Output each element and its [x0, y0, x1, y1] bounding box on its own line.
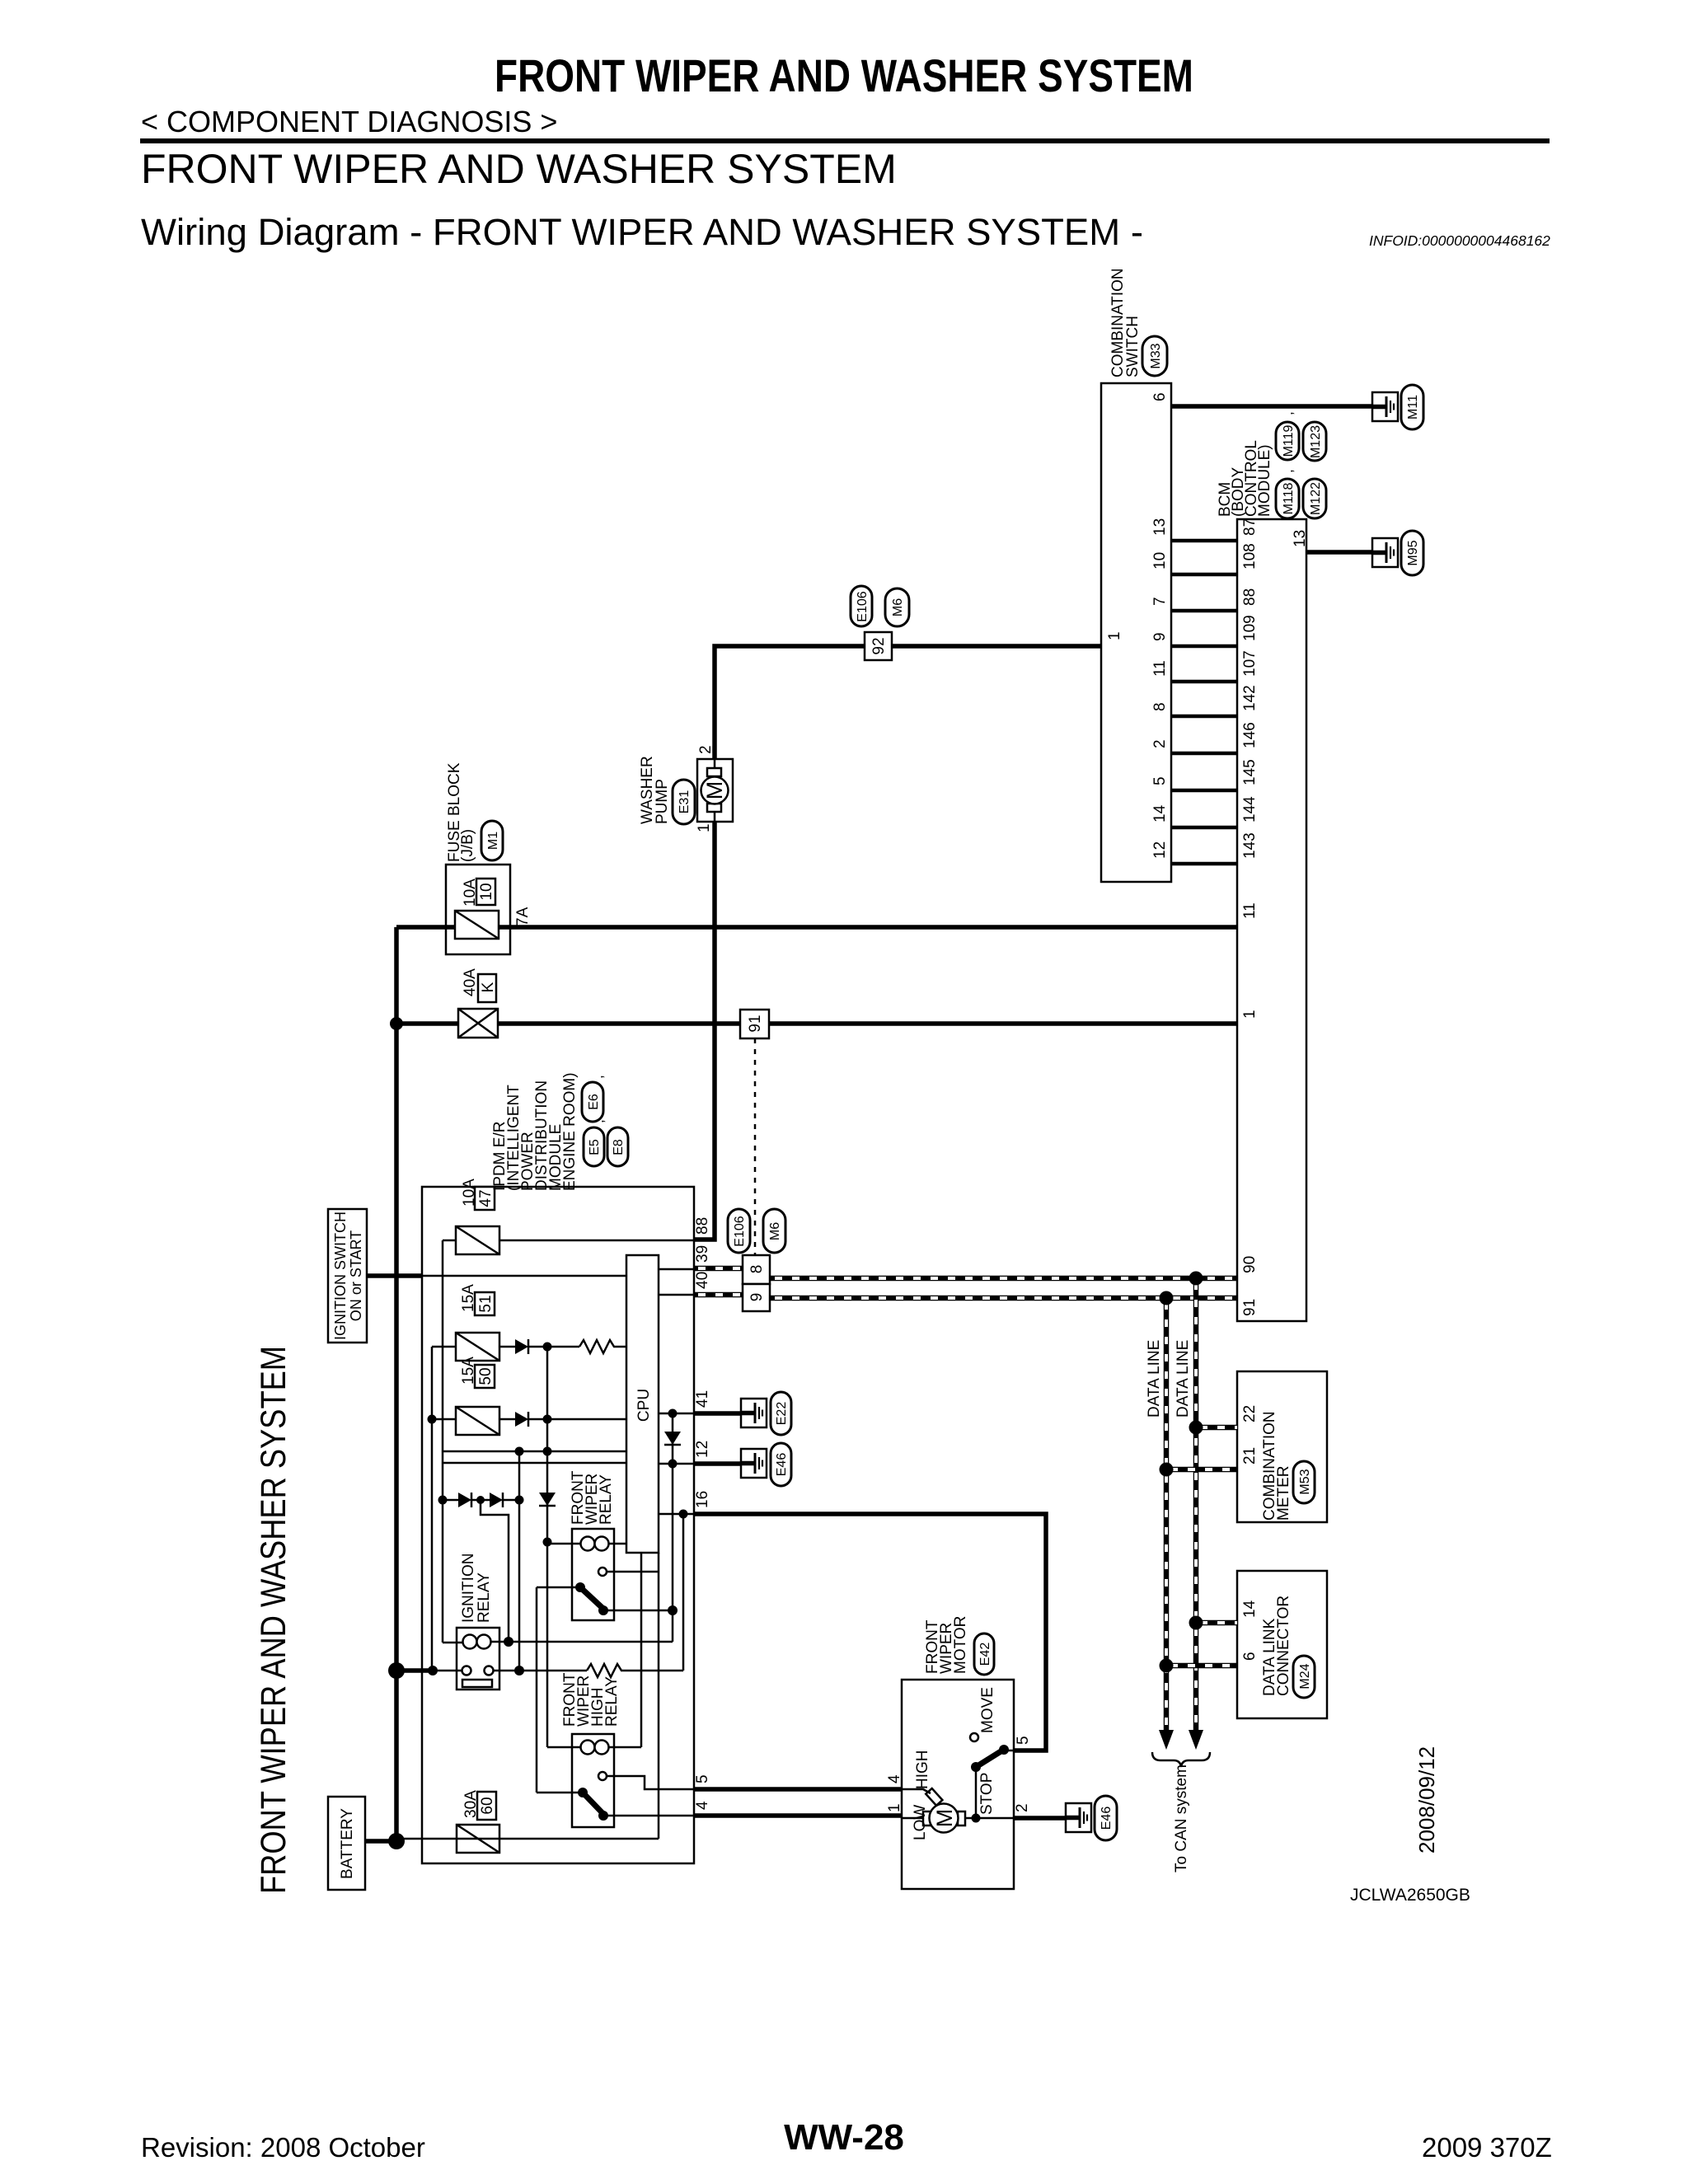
diode D3 ignition relay freewheel [458, 1493, 471, 1507]
connector label M11 oval [1401, 385, 1423, 429]
svg-text:,: , [1280, 469, 1296, 473]
wire switch row 14-144 [1171, 826, 1237, 830]
wire riser 816 to pin 12 node [672, 1610, 674, 1642]
wire ignition relay coil left lead [443, 1642, 463, 1644]
wire fuse 47 rail vertical [442, 1240, 444, 1643]
svg-text:M24: M24 [1298, 1663, 1312, 1689]
wire diode D4 tap down to ignition relay coil node [481, 1500, 509, 1642]
resistor R2 [587, 1664, 683, 1677]
svg-text:RELAY: RELAY [476, 1572, 493, 1623]
svg-text:M: M [932, 1809, 957, 1828]
washer pump box [697, 759, 733, 822]
wire switch row 2-146 [1171, 752, 1237, 756]
svg-text:E106: E106 [856, 591, 870, 621]
front wiper high relay lever [583, 1793, 603, 1814]
svg-text:88: 88 [1241, 588, 1259, 606]
svg-text:60: 60 [479, 1797, 496, 1814]
node DLC 14 tap [1189, 1616, 1203, 1630]
node park switch pivot [971, 1762, 981, 1772]
wire front wiper relay coil right lead to CPU [607, 1543, 626, 1545]
wire vertical 630 supply [518, 1451, 521, 1671]
front wiper motor terminals [923, 1811, 931, 1825]
front wiper motor M circle [930, 1804, 959, 1833]
svg-text:14: 14 [1241, 1600, 1259, 1618]
svg-text:12: 12 [1151, 841, 1169, 859]
node relay output node [668, 1605, 678, 1615]
node battery to 40A junction [390, 1017, 403, 1030]
node pin 16 node [679, 1510, 688, 1519]
svg-text:1: 1 [1241, 1010, 1259, 1019]
svg-text:13: 13 [1151, 518, 1169, 536]
connector label E42 [974, 1633, 994, 1675]
node fuse 50 feed [428, 1415, 437, 1424]
node battery junction B [388, 1833, 405, 1849]
dotted connector link 91 to 8 [754, 1038, 757, 1255]
fuse block (J/B) M1 box [446, 865, 510, 954]
svg-text:(J/B): (J/B) [459, 829, 476, 862]
svg-text:RELAY: RELAY [603, 1676, 621, 1727]
IPDM E/R box [422, 1187, 694, 1863]
svg-text:K: K [480, 982, 497, 992]
wire switch row 12-143 [1171, 862, 1237, 866]
svg-text:143: 143 [1241, 832, 1259, 859]
connector label M118 [1276, 479, 1299, 518]
svg-text:2: 2 [1151, 739, 1169, 748]
wire contact rail left segment [433, 1670, 462, 1672]
connector label M6 a [885, 588, 909, 626]
connector label E8 [607, 1127, 628, 1166]
svg-text:M6: M6 [768, 1222, 782, 1240]
motor park switch MOVE contact [970, 1733, 978, 1741]
front wiper high relay box [572, 1734, 614, 1827]
svg-text:,: , [591, 1119, 607, 1123]
svg-text:2: 2 [697, 745, 715, 754]
wire CAN IPDM 39 to connector 8 [694, 1266, 743, 1272]
fuse id box [K] [478, 974, 496, 1002]
svg-text:91: 91 [1241, 1299, 1259, 1316]
svg-text:E106: E106 [733, 1216, 747, 1246]
wire washer pump pin1 down to IPDM pin 88 [694, 822, 715, 1240]
svg-text:ON or START: ON or START [348, 1230, 364, 1321]
ground E46 motor [1066, 1803, 1091, 1832]
svg-text:142: 142 [1241, 685, 1259, 711]
node front wiper high relay output [598, 1811, 608, 1821]
front wiper relay box [572, 1529, 614, 1620]
svg-text:IGNITION SWITCH: IGNITION SWITCH [332, 1212, 349, 1340]
combination meter box M53 [1237, 1371, 1327, 1522]
diode D4 ignition relay freewheel [490, 1493, 503, 1507]
arrow CAN continuation 2 [1189, 1730, 1203, 1750]
svg-text:,: , [1280, 411, 1296, 415]
svg-text:10A: 10A [461, 1179, 478, 1207]
svg-text:16: 16 [694, 1491, 711, 1508]
svg-text:CONNECTOR: CONNECTOR [1275, 1596, 1292, 1696]
wire front wiper relay common lead [537, 1586, 580, 1589]
node pin 12 node [668, 1460, 678, 1469]
node pin 41 node [668, 1409, 678, 1418]
svg-text:M53: M53 [1298, 1469, 1312, 1494]
wire ignition relay coil right lead to CPU riser [490, 1641, 673, 1643]
diode D5 CPU output clamp [664, 1432, 681, 1445]
node diode row anode [438, 1496, 448, 1505]
svg-text:1: 1 [696, 823, 713, 832]
node front wiper high relay pivot [578, 1788, 588, 1797]
svg-text:MODULE): MODULE) [1256, 444, 1273, 517]
svg-text:M: M [702, 781, 727, 800]
connector 91 E106/M6 [740, 1010, 769, 1038]
wire CAN branch to meter 22 [1196, 1425, 1237, 1431]
wires combination switch to BCM rows [1171, 541, 1237, 864]
svg-text:91: 91 [747, 1015, 764, 1032]
svg-text:39: 39 [694, 1245, 711, 1263]
wire CAN connector 8 to BCM 90 [771, 1276, 1237, 1282]
BCM box [1237, 519, 1306, 1321]
svg-text:METER: METER [1275, 1466, 1292, 1521]
node meter 22 tap [1189, 1421, 1203, 1435]
wire motor pin1 lead [902, 1817, 923, 1820]
svg-text:5: 5 [1015, 1736, 1032, 1745]
wire front wiper relay coil left lead [547, 1543, 583, 1545]
svg-text:21: 21 [1241, 1447, 1259, 1465]
wire high relay coil left lead [547, 1746, 583, 1749]
svg-text:14: 14 [1151, 804, 1169, 823]
wire switch row 5-145 [1171, 789, 1237, 793]
node rail 1761 junction A [515, 1447, 524, 1456]
node motor stop junction [972, 1814, 981, 1823]
ground E22 [741, 1399, 767, 1427]
footer center page number [0, 2117, 1688, 2158]
node front relay coil node [543, 1538, 552, 1547]
svg-text:MOVE: MOVE [979, 1687, 996, 1733]
connector label E31 [673, 780, 695, 824]
wire ignition relay contact rail with resistor R2 [493, 1670, 587, 1672]
svg-text:M95: M95 [1406, 540, 1420, 565]
node between D3 D4 [476, 1496, 485, 1504]
svg-text:RELAY: RELAY [598, 1474, 615, 1525]
svg-text:146: 146 [1241, 722, 1259, 748]
node front wiper relay output [598, 1605, 608, 1615]
svg-text:40: 40 [694, 1272, 711, 1289]
wire IPDM pin 16 to front wiper motor pin 5 [694, 1514, 1046, 1750]
wire battery vertical trunk [394, 927, 399, 1841]
washer pump motor M terminals [707, 768, 721, 776]
wire switch row 13-87 [1171, 539, 1237, 543]
wire BCM pin 13 to ground M95 [1306, 550, 1386, 555]
fuse 15A [50] [456, 1407, 499, 1435]
svg-text:CPU: CPU [635, 1389, 653, 1422]
svg-text:145: 145 [1241, 759, 1259, 785]
svg-text:11: 11 [1241, 902, 1259, 919]
svg-text:DATA LINE: DATA LINE [1175, 1340, 1192, 1418]
wire 30A fuse row [396, 1838, 659, 1840]
arrow CAN continuation 1 [1159, 1730, 1174, 1750]
wire CAN data line 2 vertical [1164, 1298, 1170, 1731]
infoid [1369, 232, 1550, 250]
node CAN-L tap [1160, 1291, 1174, 1305]
wire diode junction vertical 664 [546, 1347, 549, 1747]
wire high relay NO contact lead jog to pin 5 [607, 1776, 694, 1789]
svg-text:51: 51 [477, 1295, 495, 1312]
wire switch row 9-109 [1171, 644, 1237, 649]
connector label M123 [1303, 422, 1326, 461]
wire IPDM pin 41 to ground E22 [694, 1411, 754, 1416]
fusible link 40A [K] [458, 1009, 498, 1038]
front wiper motor high-speed brush [926, 1788, 942, 1806]
svg-text:4: 4 [694, 1801, 711, 1810]
node D1 cathode node [543, 1343, 552, 1352]
wire IPDM pin 5 to motor pin 4 [694, 1787, 902, 1792]
node meter 21 tap [1160, 1463, 1174, 1477]
connector label M119 [1276, 422, 1299, 460]
wire CAN connector 9 to BCM 91 [771, 1296, 1237, 1301]
wire 40A row to BCM pin 1 [396, 1021, 1237, 1026]
connector label M24 [1293, 1656, 1315, 1698]
page title [0, 49, 1688, 102]
svg-text:M122: M122 [1309, 482, 1323, 515]
svg-text:2008/09/12: 2008/09/12 [1414, 1746, 1439, 1854]
fuse id box [51] [475, 1292, 495, 1315]
svg-text:2: 2 [1014, 1803, 1031, 1812]
wire motor pin4 lead [902, 1789, 931, 1793]
node fuse 50 rail tap [428, 1666, 438, 1675]
connector label M122 [1303, 479, 1326, 518]
wire IPDM pin 12 to ground E46 [694, 1461, 754, 1466]
svg-text:MOTOR: MOTOR [952, 1616, 969, 1674]
front wiper relay NC contact [598, 1568, 607, 1576]
wire high relay common lead [537, 1792, 583, 1794]
wire washer pump internal leads [714, 759, 716, 770]
svg-text:50: 50 [477, 1367, 495, 1385]
svg-text:E46: E46 [775, 1453, 789, 1477]
ignition relay contact circles [462, 1666, 471, 1675]
front wiper high relay NO contact [598, 1772, 607, 1780]
wire stop switch arm vertical [975, 1767, 978, 1818]
wire rail 537 to CPU pin 1775 [443, 1462, 626, 1465]
wire CAN branch to DLC 14 [1196, 1620, 1237, 1626]
wire between diodes D3 D4 [471, 1499, 490, 1502]
connector 92 E106/M6 [865, 632, 892, 660]
svg-text:40A: 40A [462, 968, 479, 996]
front wiper motor box E42 [902, 1680, 1014, 1889]
section heading [141, 145, 897, 193]
wire relay common rail vertical 651 [536, 1587, 538, 1793]
svg-text:E8: E8 [612, 1139, 626, 1155]
combination switch box M33 [1101, 383, 1171, 882]
svg-text:22: 22 [1241, 1405, 1259, 1422]
relay coil ignition relay [463, 1635, 477, 1649]
wire front wiper relay output to node 816 [603, 1610, 673, 1612]
fuse 10A [10] in fuse block [455, 911, 499, 939]
node rail 1761 junction B [543, 1447, 552, 1456]
svg-text:10A: 10A [462, 879, 479, 907]
fuse id box [10] [476, 879, 495, 905]
svg-text:11: 11 [1151, 660, 1169, 677]
svg-text:13: 13 [1292, 530, 1309, 547]
svg-text:30A: 30A [462, 1790, 480, 1818]
svg-text:SWITCH: SWITCH [1124, 316, 1142, 377]
svg-text:M11: M11 [1406, 395, 1420, 419]
svg-text:5: 5 [694, 1774, 711, 1783]
wire motor pin5 stub [1004, 1750, 1014, 1752]
svg-text:7A: 7A [514, 907, 532, 926]
wire switch row 11-107 [1171, 680, 1237, 684]
svg-text:M33: M33 [1149, 343, 1163, 368]
brace to CAN system [1152, 1752, 1210, 1767]
node D4 cathode node [515, 1496, 524, 1505]
subsection heading [141, 211, 1143, 254]
wire ignition feed inside IPDM to CPU [422, 1275, 626, 1277]
diode D6 front wiper relay clamp [539, 1493, 556, 1506]
connector label M1 [481, 821, 503, 860]
front wiper relay lever [580, 1587, 603, 1609]
svg-text:FRONT WIPER AND WASHER SYSTEM: FRONT WIPER AND WASHER SYSTEM [254, 1346, 293, 1894]
wire diode 51 to resistor node [528, 1346, 579, 1348]
wire relay supply rail 1761 to CPU [443, 1451, 626, 1453]
svg-text:6: 6 [1241, 1652, 1259, 1661]
svg-text:M6: M6 [891, 598, 905, 616]
connector 8 E106/M6 [743, 1255, 770, 1284]
svg-text:LOW: LOW [912, 1805, 929, 1840]
wire battery tap to ignition relay contact rail [396, 1668, 433, 1673]
ground M95 [1372, 538, 1398, 567]
fuse 10A [47] [456, 1226, 499, 1254]
connector label E22 oval [771, 1392, 791, 1435]
svg-text:87: 87 [1241, 518, 1259, 536]
connector label E46 oval b [1095, 1796, 1117, 1840]
svg-text:88: 88 [694, 1217, 711, 1235]
node CAN-H tap [1189, 1272, 1203, 1286]
node D2 cathode node [543, 1415, 552, 1424]
wire diode row feed [443, 1499, 458, 1502]
node battery trunk tap A [388, 1662, 405, 1679]
wire combination switch pin 6 to ground M11 [1171, 404, 1386, 409]
wire CAN branch to meter 21 [1166, 1467, 1237, 1473]
wire switch row 10-108 [1171, 573, 1237, 577]
resistor R1 to CPU [579, 1340, 626, 1353]
svg-text:107: 107 [1241, 650, 1259, 677]
wire motor to stop switch [965, 1817, 1014, 1820]
wire pin16 branch down to resistor line [682, 1514, 685, 1671]
wire battery box to trunk [365, 1839, 396, 1844]
motor park switch lever [976, 1750, 1002, 1767]
connector label M33 [1142, 336, 1167, 376]
svg-text:E5: E5 [588, 1139, 602, 1155]
washer pump motor M circle [701, 777, 729, 804]
wire diode row to vertical 630 [502, 1499, 519, 1502]
connector label M6 b [763, 1209, 785, 1253]
relay coil front wiper high relay [581, 1741, 595, 1755]
svg-text:M1: M1 [486, 832, 500, 850]
fuse id box [50] [475, 1365, 495, 1388]
svg-text:41: 41 [694, 1390, 711, 1408]
wire CPU pin 16 inside [659, 1513, 694, 1516]
svg-text:E31: E31 [678, 790, 692, 814]
svg-text:6: 6 [1151, 392, 1169, 401]
wire washer pump pin2 feed with connector 92 to combination switch pin 1 [715, 646, 1101, 759]
wire CPU pin 41 inside [659, 1413, 694, 1415]
breadcrumb [141, 105, 557, 139]
svg-text:10: 10 [1151, 552, 1169, 569]
wire high relay output to IPDM pin 4 [603, 1815, 694, 1817]
header rule [140, 138, 1550, 143]
ignition relay plate [462, 1680, 492, 1687]
svg-text:5: 5 [1151, 776, 1169, 785]
wire fuse 50 left lead [432, 1418, 456, 1421]
svg-text:M119: M119 [1282, 424, 1296, 457]
svg-text:DATA LINE: DATA LINE [1146, 1340, 1163, 1418]
fuse 15A [51] [456, 1333, 499, 1361]
connector label M95 oval [1401, 531, 1423, 575]
svg-text:9: 9 [1151, 632, 1169, 641]
node contact rail junction [514, 1666, 524, 1675]
connector label E46 oval a [771, 1443, 791, 1486]
fuse id box [60] [477, 1792, 496, 1820]
diode D2 after fuse 50 [515, 1412, 528, 1427]
svg-text:M118: M118 [1282, 482, 1296, 514]
footer left [141, 2132, 425, 2163]
svg-text:90: 90 [1241, 1256, 1259, 1273]
ignition switch box [328, 1209, 367, 1343]
svg-text:1: 1 [1106, 631, 1123, 640]
data link connector box M24 [1237, 1571, 1327, 1718]
wire diode 50 to CPU [528, 1418, 626, 1421]
svg-text:BATTERY: BATTERY [339, 1808, 356, 1879]
connector label E6 [582, 1082, 603, 1122]
svg-text:47: 47 [477, 1189, 495, 1207]
svg-text:E22: E22 [775, 1402, 789, 1426]
connector label E106 b [728, 1209, 750, 1253]
wire switch row 7-88 [1171, 609, 1237, 613]
connector 9 E106/M6 [743, 1284, 770, 1311]
diode D1 after fuse 51 [515, 1339, 528, 1354]
svg-text:15A: 15A [460, 1357, 477, 1385]
wire CAN branch to DLC 6 [1166, 1663, 1237, 1669]
wire 30A feed riser 799 [658, 1553, 660, 1839]
wire front wiper relay NC contact lead [607, 1571, 659, 1573]
wire fuse 50 to diode [499, 1418, 515, 1421]
svg-text:12: 12 [694, 1441, 711, 1458]
relay coil front wiper relay [581, 1537, 595, 1551]
wire fuse 47 to IPDM pin 88 [499, 1240, 694, 1242]
wire CPU pin 39 to IPDM edge [659, 1268, 694, 1271]
connector label E106 a [851, 586, 872, 626]
CPU box [626, 1255, 659, 1553]
svg-text:144: 144 [1241, 796, 1259, 823]
figure id [1350, 1886, 1470, 1905]
wire switch row 8-142 [1171, 715, 1237, 719]
wire IPDM pin 4 to motor pin 1 [694, 1813, 902, 1818]
node ignition coil node [504, 1637, 513, 1647]
fuse id box [47] [475, 1187, 495, 1210]
svg-text:109: 109 [1241, 615, 1259, 641]
wire ignition switch to IPDM [367, 1273, 423, 1278]
wire CAN data line 1 vertical [1193, 1278, 1199, 1731]
svg-text:IGNITION: IGNITION [460, 1554, 477, 1623]
svg-text:8: 8 [748, 1265, 766, 1274]
footer right [1422, 2132, 1552, 2163]
svg-text:92: 92 [870, 637, 888, 654]
svg-text:HIGH: HIGH [914, 1750, 931, 1790]
wire fuse 7A row to BCM pin 11 [396, 925, 1237, 930]
node front wiper relay pivot [575, 1582, 585, 1592]
svg-text:9: 9 [748, 1293, 766, 1302]
svg-text:15A: 15A [460, 1284, 477, 1312]
wire high relay coil right lead to CPU riser 778 [607, 1746, 641, 1749]
svg-text:4: 4 [886, 1774, 903, 1783]
svg-text:To CAN system: To CAN system [1173, 1765, 1190, 1872]
svg-text:8: 8 [1151, 702, 1169, 711]
wire CPU pin 40 to IPDM edge [659, 1294, 694, 1296]
